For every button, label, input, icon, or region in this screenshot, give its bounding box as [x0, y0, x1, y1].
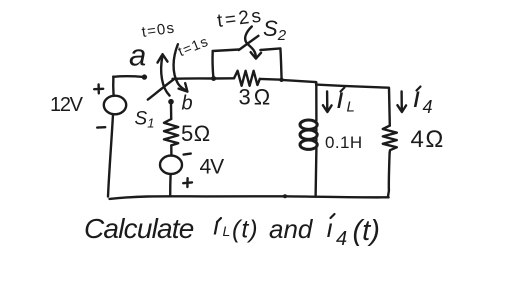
wire: bottom horizontal [110, 196, 389, 199]
wire: from 3-ohm to right junction [260, 78, 282, 81]
wire below 4-ohm to bottom-right corner [388, 153, 390, 197]
caption iL tick [217, 218, 221, 222]
inductor coil loop 3 [300, 140, 317, 149]
wire: left vertical above 12V source [112, 77, 115, 96]
wire: left vertical below 12V source [108, 114, 113, 196]
svg-text:5Ω: 5Ω [181, 121, 211, 146]
S2 arrowhead [251, 52, 261, 58]
wire: top horizontal from S1 pivot to 3-ohm [173, 77, 235, 80]
switch S2 top-left horizontal [213, 50, 239, 52]
svg-text:L: L [347, 99, 355, 116]
plus sign of 12V [94, 84, 103, 93]
svg-text:12V: 12V [50, 94, 84, 116]
switch S2 left riser [211, 51, 214, 78]
caption i4 tick [331, 214, 335, 218]
resistor 5ohm zigzag [164, 119, 178, 145]
svg-text:4: 4 [336, 228, 347, 250]
svg-text:(t): (t) [232, 216, 259, 244]
wire: from inductor branch to top-right corner [316, 82, 389, 88]
voltage source 12V circle [104, 96, 126, 115]
voltage source 4V circle [160, 156, 182, 174]
S1 up arrowhead [158, 54, 168, 62]
svg-text:a: a [129, 38, 146, 73]
svg-text:Calculate: Calculate [84, 213, 194, 244]
iL current arrow [323, 91, 332, 112]
resistor 3-ohm zigzag [234, 71, 260, 86]
plus sign of 4V [183, 178, 192, 187]
svg-text:L: L [223, 223, 231, 239]
svg-text:3Ω: 3Ω [239, 85, 274, 110]
junction dot right of 3-ohm [279, 78, 283, 82]
S1 arrow up (t=0s) [161, 56, 169, 95]
wire: stub from 5-ohm to 4V source [170, 145, 172, 155]
inductor branch wire [314, 82, 317, 196]
minus sign of 4V [184, 154, 191, 155]
switch S2 arm (open, pointing up-right) [239, 36, 259, 50]
i4 i-tick [417, 87, 421, 91]
i4 current arrow [397, 91, 406, 112]
node a terminal dot [142, 74, 147, 79]
S1 down arrowhead [179, 83, 188, 91]
S2 closing arrow squiggle [245, 27, 256, 57]
minus sign of 12V [97, 126, 105, 129]
iL i-tick [341, 88, 345, 92]
svg-text:4Ω: 4Ω [411, 126, 445, 153]
S1 arrow down (t=1s) [174, 44, 187, 91]
svg-text:4: 4 [423, 97, 433, 117]
svg-text:ı: ı [213, 211, 220, 241]
wire: stub from node b down to 5-ohm resistor [170, 104, 173, 119]
wire: from right junction to inductor branch [282, 80, 316, 82]
svg-text:(t): (t) [353, 215, 380, 247]
switch S2 right riser [280, 48, 281, 79]
inductor coil loop 2 [300, 130, 317, 139]
wire: top-left horizontal from 12V to node a [113, 75, 143, 78]
junction dot left of 3-ohm [211, 76, 216, 81]
svg-text:4V: 4V [200, 156, 225, 179]
svg-text:ı: ı [336, 82, 344, 115]
inductor coil loop 1 [300, 120, 317, 129]
svg-text:0.1H: 0.1H [325, 133, 363, 152]
switch S2 top-right horizontal [260, 48, 280, 50]
resistor 4-ohm zigzag [383, 126, 397, 153]
svg-text:b: b [182, 93, 193, 115]
caption: Calculate iL(t) and i4(t) [84, 211, 380, 251]
switch S1 arm (open, pointing lower-left) [148, 79, 175, 100]
svg-text:and: and [269, 214, 314, 244]
junction blob on bottom wire [283, 194, 287, 198]
wire: below 4V source to bottom wire [169, 174, 172, 196]
resistor 4-ohm right branch top wire [388, 88, 391, 126]
node b dot [168, 99, 174, 105]
